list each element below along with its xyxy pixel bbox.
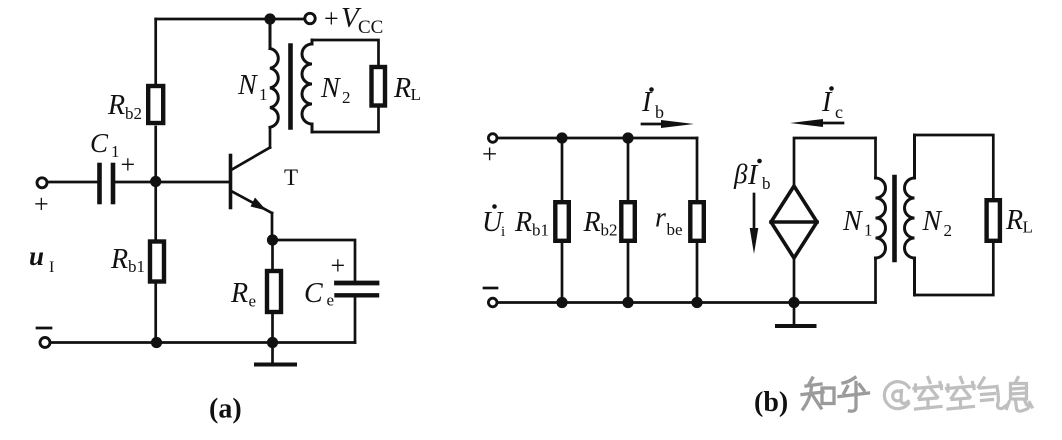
- svg-text:+: +: [482, 139, 497, 169]
- svg-text:b2: b2: [125, 104, 142, 123]
- node: Rb1 bottom (b): [556, 297, 567, 308]
- svg-text:2: 2: [342, 88, 351, 107]
- label Rb2: [107, 90, 142, 123]
- wire: N1 bottom (b): [874, 258, 877, 303]
- svg-text:1: 1: [259, 85, 268, 104]
- node: base junction: [150, 176, 161, 187]
- terminal (b) input bottom: [488, 298, 497, 307]
- svg-text:+: +: [331, 251, 346, 280]
- wire: Re bottom: [271, 313, 274, 343]
- wire: collector vertical: [269, 127, 272, 147]
- transistor T: [231, 148, 273, 214]
- label N1 (a): [237, 70, 268, 104]
- svg-text:C: C: [90, 128, 109, 158]
- svg-text:C: C: [304, 278, 323, 309]
- arrow Ic: [790, 119, 843, 127]
- arrow Ib: [642, 120, 694, 128]
- resistor Rb1 (b): [555, 202, 569, 241]
- wire: (b) top rail: [497, 137, 697, 140]
- wire: Rb2 branch top (b): [627, 138, 630, 200]
- svg-text:R: R: [583, 207, 601, 238]
- label + (b): [482, 139, 497, 169]
- wire: Ce bottom: [354, 295, 357, 343]
- transformer core (b): [892, 177, 897, 260]
- svg-text:r: r: [655, 203, 666, 234]
- svg-text:I: I: [821, 87, 833, 118]
- label T: [284, 165, 298, 190]
- label Ce: [304, 251, 345, 310]
- capacitor C1: [97, 165, 102, 202]
- wire: Rb1 branch top (b): [561, 138, 564, 200]
- ground (b): [777, 303, 815, 327]
- transformer core (a): [288, 46, 293, 128]
- wire: (b) bottom rail: [497, 301, 876, 304]
- resistor RL (b): [987, 200, 1000, 241]
- svg-text:R: R: [110, 244, 128, 275]
- svg-text:b2: b2: [601, 221, 618, 240]
- terminal (b) input top: [488, 134, 497, 143]
- svg-text:N: N: [237, 70, 258, 101]
- wire: rbe branch top (b): [696, 138, 699, 200]
- label (a): [209, 394, 242, 425]
- svg-text:2: 2: [944, 221, 953, 240]
- resistor Rb1: [150, 242, 164, 282]
- wire: N1 side (b): [874, 138, 877, 178]
- svg-text:R: R: [107, 90, 125, 121]
- svg-text:I: I: [49, 259, 54, 276]
- node: emitter junction: [267, 234, 278, 245]
- node: ground junction (b): [788, 297, 799, 308]
- svg-text:+: +: [34, 190, 49, 219]
- svg-text:N: N: [320, 73, 341, 104]
- terminal +Vcc: [305, 13, 315, 23]
- svg-text:β: β: [733, 159, 748, 189]
- svg-text:I: I: [747, 160, 759, 191]
- label N1 (b): [842, 206, 873, 240]
- label RL (b): [1005, 205, 1033, 237]
- wire: diamond top: [794, 138, 876, 186]
- wire: Rb2 branch bottom (b): [627, 241, 630, 303]
- svg-text:T: T: [284, 165, 298, 190]
- label +Vcc: [324, 2, 383, 38]
- svg-text:CC: CC: [358, 17, 383, 38]
- wire: rbe branch bottom (b): [696, 241, 699, 303]
- resistor RL (a): [372, 67, 386, 106]
- svg-text:b1: b1: [128, 257, 145, 276]
- svg-text:e: e: [249, 292, 257, 311]
- svg-text:i: i: [501, 224, 505, 240]
- label RL (a): [393, 73, 421, 104]
- wire: (a) bottom rail: [51, 341, 355, 344]
- wire: diamond bottom: [793, 258, 796, 303]
- terminal input top: [37, 178, 47, 188]
- label Re: [230, 278, 256, 311]
- wire: Rb1 to bottom rail: [154, 284, 157, 343]
- wire: Rb2 bottom to Rb1 top: [154, 127, 157, 240]
- svg-text:b: b: [655, 102, 664, 122]
- svg-text:N: N: [922, 206, 943, 237]
- label - input: [37, 327, 51, 330]
- svg-text:L: L: [1023, 218, 1033, 237]
- current source diamond: [771, 186, 817, 258]
- svg-text:1: 1: [111, 142, 120, 161]
- svg-text:L: L: [411, 85, 421, 104]
- wire: (a) top rail: [156, 18, 303, 21]
- label Rb1: [110, 244, 145, 276]
- svg-text:1: 1: [864, 221, 873, 240]
- label Ib with arrow: [641, 87, 664, 122]
- arrow beta Ib: [750, 194, 759, 254]
- label beta Ib: [733, 159, 771, 193]
- label N2 (a): [320, 73, 351, 107]
- svg-text:R: R: [1005, 205, 1023, 236]
- terminal input bottom: [40, 338, 50, 348]
- svg-text:b: b: [762, 174, 771, 193]
- wire: N2-RL loop (b): [915, 135, 994, 198]
- watermark user id text: [884, 378, 1032, 412]
- label + input: [34, 190, 49, 219]
- node: (a) Vcc junction: [264, 13, 275, 24]
- capacitor Ce: [337, 281, 378, 286]
- inductor N2 (b): [905, 135, 915, 295]
- node: Rb1 top (b): [556, 132, 567, 143]
- watermark zhihu logo text: [802, 378, 869, 412]
- svg-text:R: R: [230, 278, 248, 309]
- resistor Rb2 (b): [621, 202, 635, 241]
- label N2 (b): [922, 206, 953, 240]
- label (b): [754, 387, 788, 418]
- inductor N1 (a): [270, 19, 278, 127]
- ground (a): [256, 343, 295, 365]
- label Ic with arrow: [821, 86, 843, 122]
- wire: Rb1 branch bottom (b): [561, 241, 564, 303]
- svg-text:R: R: [514, 207, 532, 238]
- wire: input to C1: [48, 181, 97, 184]
- svg-text:+: +: [324, 4, 339, 33]
- svg-text:c: c: [835, 102, 843, 122]
- wire: C1 to base: [116, 181, 230, 184]
- inductor N2 (a): [302, 40, 312, 132]
- node: Rb2 bottom (b): [622, 297, 633, 308]
- label Rb2 (b): [583, 207, 618, 240]
- svg-text:+: +: [121, 150, 136, 179]
- resistor rbe (b): [690, 202, 704, 241]
- svg-text:be: be: [667, 220, 683, 239]
- svg-text:R: R: [393, 73, 411, 104]
- node: rbe bottom (b): [691, 297, 702, 308]
- svg-text:N: N: [842, 206, 863, 237]
- wire: emitter node to Ce: [273, 240, 356, 282]
- wire: Re top: [271, 240, 274, 270]
- label C1: [90, 128, 135, 179]
- label Rb1 (b): [514, 207, 549, 240]
- svg-text:e: e: [327, 291, 335, 310]
- svg-text:u: u: [29, 241, 44, 271]
- label rbe (b): [655, 203, 683, 240]
- node: Rb1 bottom junction: [151, 337, 162, 348]
- wire: emitter vertical: [271, 213, 274, 240]
- svg-text:b1: b1: [532, 221, 549, 240]
- inductor N1 (b): [876, 178, 886, 258]
- label - (b): [484, 287, 497, 290]
- resistor Re: [267, 271, 281, 312]
- svg-text:(b): (b): [754, 387, 788, 418]
- svg-text:(a): (a): [209, 394, 242, 425]
- wire: N2-RL loop (a): [312, 40, 379, 66]
- wire: Rb2 top: [154, 19, 157, 83]
- label u_I: [29, 241, 54, 276]
- resistor Rb2: [148, 86, 163, 123]
- node: Rb2 top (b): [622, 132, 633, 143]
- label U_i: [482, 204, 505, 240]
- node: emitter bottom junction: [267, 337, 278, 348]
